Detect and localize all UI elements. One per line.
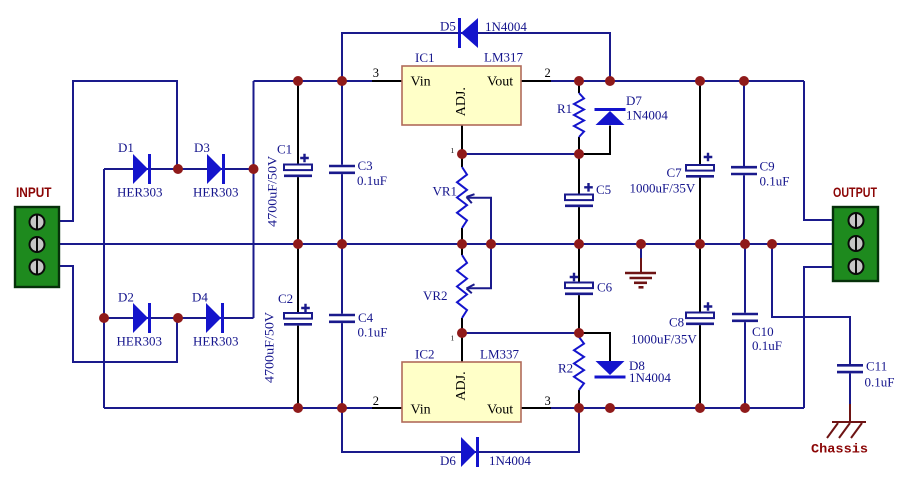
svg-text:D5: D5: [440, 19, 456, 34]
node C7/C8-gnd: [695, 239, 705, 249]
capacitor C9 0.1uF: [731, 81, 757, 244]
diode D8: [595, 361, 626, 379]
wire positive node: D3/D4 cathodes up to top rail: [253, 81, 255, 318]
node AC2 bridge midpoint: [173, 313, 183, 323]
wire ADJ rail of IC1: [462, 153, 579, 155]
svg-text:0.1uF: 0.1uF: [358, 325, 388, 340]
potentiometer VR2: [457, 244, 467, 333]
svg-text:D3: D3: [194, 140, 210, 155]
wire AC2: INPUT pin3 down and over to D2/D4 midpoint: [59, 266, 177, 362]
wire bottom diode row (D2 D4): [104, 317, 254, 319]
wire top diode row (D1 D3): [104, 168, 254, 170]
connector J2 OUTPUT terminal block: [833, 207, 878, 281]
node D5/D7-top: [605, 76, 615, 86]
svg-text:C9: C9: [760, 159, 775, 174]
diode D1: [133, 154, 151, 184]
svg-text:1N4004: 1N4004: [629, 370, 671, 385]
diode D7: [595, 108, 626, 125]
capacitor C5: [565, 154, 593, 244]
svg-text:ADJ.: ADJ.: [454, 371, 469, 400]
svg-text:HER303: HER303: [193, 334, 239, 349]
plus sign of C7: [704, 153, 713, 162]
IC1 pin 1 ADJ lead: [461, 125, 463, 154]
resistor R2: [574, 333, 584, 408]
svg-text:4700uF/50V: 4700uF/50V: [265, 155, 280, 227]
node wiper-gnd: [486, 239, 496, 249]
wire negative node: D1/D2 anodes down to bottom rail: [103, 169, 105, 408]
wire D5 bypass branch: [342, 33, 610, 81]
svg-text:3: 3: [545, 394, 551, 408]
wire ground rail to C11 / chassis branch: [772, 244, 850, 364]
IC1 pin 2 Vout lead: [521, 80, 551, 82]
plus sign of C2: [301, 304, 310, 313]
svg-text:3: 3: [373, 66, 379, 80]
svg-text:VR1: VR1: [433, 184, 458, 199]
svg-text:HER303: HER303: [117, 185, 163, 200]
svg-text:2: 2: [545, 66, 551, 80]
svg-text:C8: C8: [669, 315, 684, 330]
svg-text:HER303: HER303: [117, 334, 163, 349]
capacitor C11 0.1uF: [837, 317, 863, 404]
wire D7 connection to ADJ rail: [579, 126, 610, 155]
svg-text:D7: D7: [626, 93, 642, 108]
node C1-gnd: [293, 239, 303, 249]
plus sign of C1: [300, 154, 309, 163]
capacitor C2 4700uF/50V: [284, 244, 312, 408]
node -V bridge output: [99, 313, 109, 323]
capacitor C7 1000uF/35V: [686, 81, 714, 244]
svg-text:0.1uF: 0.1uF: [865, 375, 895, 390]
node R1/C5: [574, 149, 584, 159]
svg-text:2: 2: [373, 394, 379, 408]
node R2-bottom: [574, 403, 584, 413]
svg-text:C3: C3: [358, 158, 373, 173]
svg-text:R2: R2: [558, 361, 573, 376]
node gnd-symbol: [636, 239, 646, 249]
op-amp regulator U/IC1 LM317 body: [402, 66, 521, 125]
node VR1/VR2-gnd: [457, 239, 467, 249]
resistor R1: [574, 81, 584, 154]
svg-text:C1: C1: [277, 142, 292, 157]
svg-text:VR2: VR2: [423, 288, 448, 303]
svg-text:1: 1: [451, 334, 455, 343]
wire top rail (+V unregulated): [254, 80, 805, 82]
diode D2: [133, 303, 151, 333]
wire D6 bypass branch: [342, 408, 579, 452]
IC1 pin 3 Vin lead: [372, 80, 402, 82]
wire top rail drop to OUTPUT pin1: [804, 81, 833, 220]
plus sign of C6: [570, 273, 579, 282]
svg-text:1000uF/35V: 1000uF/35V: [631, 332, 697, 347]
svg-text:D6: D6: [440, 453, 456, 468]
svg-text:1: 1: [451, 146, 455, 155]
svg-text:C4: C4: [358, 310, 374, 325]
node AC1 bridge midpoint: [173, 164, 183, 174]
IC2 pin 3 Vout lead: [521, 407, 551, 409]
wire bottom rail (-V): [104, 407, 804, 409]
node C8-bottom: [695, 403, 705, 413]
capacitor C8 1000uF/35V: [686, 244, 714, 408]
svg-text:C11: C11: [866, 359, 887, 374]
wire ADJ rail of IC2: [462, 332, 579, 334]
potentiometer VR1: [457, 154, 467, 244]
svg-text:Vin: Vin: [411, 403, 431, 418]
svg-text:INPUT: INPUT: [16, 184, 52, 200]
connector J1 INPUT terminal block: [15, 207, 59, 287]
svg-text:LM337: LM337: [480, 347, 520, 362]
node C7-top: [695, 76, 705, 86]
op-amp regulator U/IC2 LM337 body: [402, 362, 521, 422]
svg-text:IC2: IC2: [415, 347, 435, 362]
node C1-top: [293, 76, 303, 86]
diode D5: [458, 18, 478, 48]
svg-text:0.1uF: 0.1uF: [752, 338, 782, 353]
svg-text:4700uF/50V: 4700uF/50V: [261, 311, 276, 383]
capacitor C6: [565, 244, 593, 333]
node C2-bottom: [293, 403, 303, 413]
wire VR1 wiper to ground rail: [467, 198, 492, 244]
svg-text:OUTPUT: OUTPUT: [833, 184, 877, 200]
svg-text:D2: D2: [118, 290, 134, 305]
node IC2-ADJ: [457, 328, 467, 338]
node C3/C4-gnd: [337, 239, 347, 249]
diode D6: [461, 437, 479, 467]
node IC1-ADJ: [457, 149, 467, 159]
node C10-bottom: [740, 403, 750, 413]
wire OUTPUT pin3 drop to bottom rail: [804, 267, 833, 408]
svg-text:1N4004: 1N4004: [489, 453, 531, 468]
node C9-top: [739, 76, 749, 86]
svg-text:Chassis: Chassis: [811, 442, 868, 457]
wire D8 connection to ADJ rail: [579, 333, 610, 361]
capacitor C10 0.1uF: [732, 244, 758, 408]
svg-text:Vout: Vout: [487, 403, 513, 418]
capacitor C4 0.1uF: [329, 244, 355, 408]
wire VR2 wiper to ground rail: [467, 244, 492, 288]
svg-text:IC1: IC1: [415, 50, 435, 65]
svg-text:C10: C10: [752, 324, 774, 339]
svg-text:D1: D1: [118, 140, 134, 155]
chassis ground symbol: [827, 422, 866, 438]
node C5/C6-gnd: [574, 239, 584, 249]
svg-text:0.1uF: 0.1uF: [357, 173, 387, 188]
plus sign of C5: [584, 183, 593, 192]
node C11-branch-gnd: [767, 239, 777, 249]
svg-text:R1: R1: [557, 101, 572, 116]
plus sign of C8: [704, 302, 713, 311]
capacitor C3 0.1uF: [329, 81, 355, 244]
svg-text:1N4004: 1N4004: [485, 19, 527, 34]
svg-text:Vin: Vin: [411, 75, 431, 90]
svg-text:1000uF/35V: 1000uF/35V: [630, 181, 696, 196]
svg-text:LM317: LM317: [484, 50, 524, 65]
svg-text:ADJ.: ADJ.: [454, 87, 469, 116]
diode D4: [206, 303, 224, 333]
diode D3: [207, 154, 225, 184]
svg-text:C7: C7: [667, 165, 683, 180]
node R2/C6: [574, 328, 584, 338]
svg-text:Vout: Vout: [487, 75, 513, 90]
node D8-bottom: [605, 403, 615, 413]
node C3/D5-top: [337, 76, 347, 86]
wire VR2 wiper arrowhead: [467, 284, 475, 293]
wire C11 to chassis lead: [849, 374, 851, 405]
svg-text:C2: C2: [278, 291, 293, 306]
svg-text:C5: C5: [596, 182, 611, 197]
svg-text:0.1uF: 0.1uF: [760, 174, 790, 189]
IC2 pin 2 Vin lead: [372, 407, 402, 409]
svg-text:HER303: HER303: [193, 185, 239, 200]
svg-text:C6: C6: [597, 280, 613, 295]
node +V bridge output: [249, 164, 259, 174]
wire AC1: INPUT pin1 up and over to D1/D3 midpoint: [59, 81, 177, 221]
ground symbol on center rail: [625, 244, 656, 287]
svg-text:1N4004: 1N4004: [626, 108, 668, 123]
node C4/D6-bottom: [337, 403, 347, 413]
IC2 pin 1 ADJ lead: [461, 333, 463, 362]
capacitor C1 4700uF/50V: [284, 81, 312, 244]
node R1-top: [574, 76, 584, 86]
svg-text:D4: D4: [192, 290, 208, 305]
wire center ground rail: [59, 243, 833, 245]
wire VR1 wiper arrowhead: [467, 194, 475, 203]
node C9/C10-gnd: [740, 239, 750, 249]
